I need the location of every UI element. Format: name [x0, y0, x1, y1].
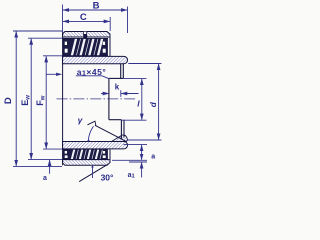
shaft recess outline top	[109, 64, 124, 139]
30 degree arrow	[92, 167, 94, 178]
dimension Fw	[43, 56, 62, 149]
svg-text:C: C	[80, 12, 87, 23]
30 degree diagonal	[79, 164, 107, 181]
roller and cage assembly top	[63, 38, 109, 55]
dimension k	[101, 90, 139, 97]
svg-text:a1: a1	[128, 172, 136, 180]
gamma arc arrow	[88, 126, 93, 140]
roller and cage assembly bottom	[63, 149, 109, 159]
dimension a right	[112, 145, 147, 162]
outer ring top section	[63, 32, 111, 38]
svg-text:D: D	[3, 97, 14, 104]
outer ring right face bottom	[109, 149, 111, 162]
inner ring top section	[63, 56, 128, 63]
tilted inner ring end (misalignment gamma)	[112, 135, 128, 142]
dimension a1	[141, 162, 143, 177]
svg-text:k: k	[115, 83, 120, 92]
dimension B	[63, 5, 128, 34]
lubrication notch	[83, 32, 87, 39]
centerline (bearing axis)	[57, 98, 137, 100]
dimension a left	[49, 160, 51, 174]
leader to left bore chamfer	[46, 73, 56, 75]
outer ring right face top	[109, 34, 111, 56]
svg-text:a: a	[43, 175, 47, 182]
bearing left face	[62, 32, 64, 166]
svg-text:B: B	[93, 0, 100, 11]
inner ring bottom section	[63, 142, 128, 149]
svg-text:30°: 30°	[101, 172, 114, 182]
svg-text:a: a	[151, 154, 155, 161]
dimension l	[122, 78, 147, 120]
dimension C	[63, 17, 110, 31]
dimension D	[13, 31, 62, 166]
gamma angle diagonal	[95, 125, 127, 141]
gamma leader stub	[88, 121, 96, 126]
dimension Ew	[28, 38, 62, 159]
outer ring bottom section	[63, 160, 111, 166]
dimension d	[127, 64, 161, 141]
